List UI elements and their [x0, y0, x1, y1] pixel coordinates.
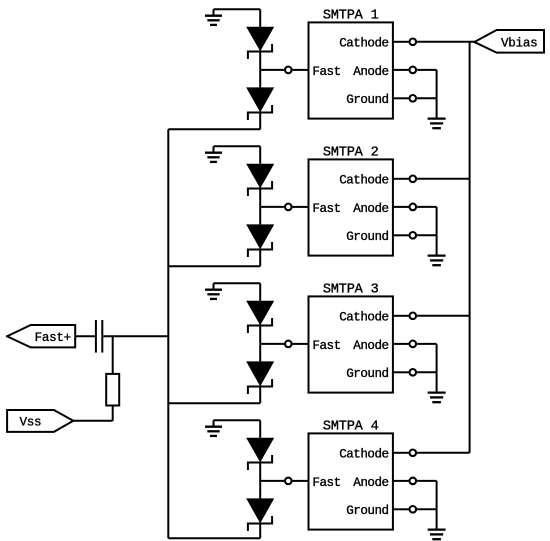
terminal circle (Cathode 2): [410, 176, 417, 183]
net Vbias bus: [469, 42, 471, 453]
wire: [214, 146, 261, 163]
wire: [259, 50, 261, 87]
terminal circle (Fast 3): [285, 341, 292, 348]
svg-text:Cathode: Cathode: [339, 448, 388, 462]
wire: [168, 385, 260, 403]
wire: [293, 69, 309, 71]
svg-text:Ground: Ground: [346, 230, 388, 244]
terminal circle (Anode 3): [410, 341, 417, 348]
terminal circle (Ground 2): [410, 232, 417, 239]
wire: [417, 508, 437, 510]
IC U3 SMTPA 3: [309, 283, 393, 393]
terminal circle (Anode 2): [410, 204, 417, 211]
ground (diode chain 2): [205, 146, 222, 162]
wire: [293, 480, 309, 482]
ground (pins U1): [428, 98, 446, 128]
svg-text:SMTPA 1: SMTPA 1: [323, 9, 379, 24]
wire: [168, 522, 260, 538]
ground (diode chain 4): [205, 420, 222, 436]
zener diode D7: [248, 439, 273, 469]
wire: [259, 187, 261, 224]
terminal circle (Ground 1): [410, 95, 417, 102]
wire: [293, 343, 309, 345]
wire: [214, 9, 261, 26]
node Fast4: [260, 480, 284, 482]
svg-text:Ground: Ground: [346, 367, 388, 381]
svg-text:Anode: Anode: [353, 476, 388, 490]
wire: [393, 234, 409, 236]
wire: [73, 406, 112, 421]
terminal circle (Anode 1): [410, 67, 417, 74]
terminal circle (Anode 4): [410, 478, 417, 485]
terminal circle (Cathode 1): [410, 39, 417, 46]
wire: [417, 70, 437, 98]
terminal circle (Fast 1): [285, 67, 292, 74]
zener diode D5: [248, 302, 273, 332]
wire: [393, 69, 409, 71]
node Fast3: [260, 343, 284, 345]
wire: [417, 344, 437, 372]
wire: [168, 111, 260, 129]
wire: [417, 452, 470, 454]
svg-text:Cathode: Cathode: [339, 311, 388, 325]
node Fast2: [260, 206, 284, 208]
svg-text:Fast: Fast: [312, 65, 340, 79]
wire: [417, 178, 470, 180]
wire: [103, 335, 168, 337]
svg-text:Vss: Vss: [20, 416, 42, 430]
wire: [417, 207, 437, 235]
node Fast1: [260, 69, 284, 71]
svg-text:Fast: Fast: [312, 339, 340, 353]
wire: [393, 480, 409, 482]
flag Fast+: [7, 325, 75, 347]
zener diode D2: [248, 88, 273, 119]
svg-text:SMTPA 4: SMTPA 4: [323, 420, 379, 435]
wire: [75, 335, 95, 337]
wire: [393, 371, 409, 373]
wire: [393, 452, 409, 454]
wire: [259, 461, 261, 498]
svg-text:SMTPA 3: SMTPA 3: [323, 283, 379, 298]
svg-text:Anode: Anode: [353, 339, 388, 353]
wire (input bus): [167, 129, 169, 538]
IC U1 SMTPA 1: [309, 9, 393, 119]
terminal circle (Ground 4): [410, 506, 417, 513]
wire: [259, 324, 261, 361]
zener diode D8: [248, 499, 273, 530]
terminal circle (Cathode 3): [410, 313, 417, 320]
terminal circle (Ground 3): [410, 369, 417, 376]
wire: [393, 41, 409, 43]
svg-text:Fast: Fast: [312, 202, 340, 216]
wire: [112, 336, 114, 374]
terminal circle (Fast 2): [285, 204, 292, 211]
terminal circle (Cathode 4): [410, 450, 417, 457]
wire: [393, 508, 409, 510]
svg-text:Cathode: Cathode: [339, 174, 388, 188]
wire: [393, 315, 409, 317]
svg-text:Fast: Fast: [312, 476, 340, 490]
wire: [417, 97, 437, 99]
svg-text:Cathode: Cathode: [339, 37, 388, 51]
resistor R1: [106, 374, 119, 406]
capacitor C1: [96, 320, 102, 353]
ground (diode chain 1): [205, 9, 222, 25]
IC U2 SMTPA 2: [309, 146, 393, 256]
zener diode D1: [248, 28, 273, 58]
terminal circle (Fast 4): [285, 478, 292, 485]
wire: [393, 178, 409, 180]
wire: [417, 481, 437, 509]
wire: [168, 248, 260, 266]
wire: [417, 41, 474, 43]
svg-text:Ground: Ground: [346, 93, 388, 107]
ground (diode chain 3): [205, 283, 222, 299]
svg-text:Fast+: Fast+: [35, 331, 71, 345]
ground (pins U2): [428, 235, 446, 265]
ground (pins U3): [428, 372, 446, 402]
svg-text:Anode: Anode: [353, 202, 388, 216]
svg-text:Anode: Anode: [353, 65, 388, 79]
flag Vbias: [474, 30, 544, 53]
wire: [417, 315, 470, 317]
IC U4 SMTPA 4: [309, 420, 393, 530]
zener diode D3: [248, 165, 273, 195]
wire: [417, 234, 437, 236]
wire: [393, 343, 409, 345]
wire: [393, 97, 409, 99]
svg-text:Vbias: Vbias: [501, 37, 537, 51]
svg-text:Ground: Ground: [346, 504, 388, 518]
wire: [417, 371, 437, 373]
zener diode D6: [248, 362, 273, 393]
wire: [214, 420, 261, 437]
wire: [293, 206, 309, 208]
flag Vss: [7, 410, 73, 432]
zener diode D4: [248, 225, 273, 256]
ground (pins U4): [428, 509, 446, 539]
svg-text:SMTPA 2: SMTPA 2: [323, 146, 379, 161]
wire: [214, 283, 261, 300]
wire: [393, 206, 409, 208]
